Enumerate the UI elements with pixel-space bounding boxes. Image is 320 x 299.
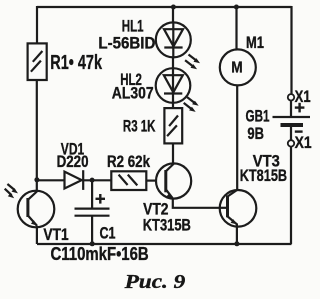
svg-text:KT315B: KT315B xyxy=(143,216,191,235)
svg-text:X1: X1 xyxy=(295,87,311,106)
svg-text:R2 62k: R2 62k xyxy=(107,152,150,171)
svg-text:R3 1K: R3 1K xyxy=(123,116,156,135)
svg-text:VT1: VT1 xyxy=(43,225,68,244)
svg-text:KT815B: KT815B xyxy=(240,166,287,185)
svg-text:D220: D220 xyxy=(57,152,89,171)
svg-text:GB1: GB1 xyxy=(246,106,270,125)
svg-text:M: M xyxy=(231,60,242,77)
svg-text:9B: 9B xyxy=(247,124,264,143)
svg-text:X1: X1 xyxy=(295,133,312,152)
svg-text:AL307: AL307 xyxy=(112,84,154,103)
svg-text:C110mkF•16B: C110mkF•16B xyxy=(51,244,149,264)
svg-text:C1: C1 xyxy=(100,224,116,243)
svg-text:R1• 47k: R1• 47k xyxy=(50,52,102,74)
svg-text:Рис. 9: Рис. 9 xyxy=(123,271,185,293)
svg-text:M1: M1 xyxy=(246,33,264,52)
svg-text:L-56BID: L-56BID xyxy=(98,33,155,52)
